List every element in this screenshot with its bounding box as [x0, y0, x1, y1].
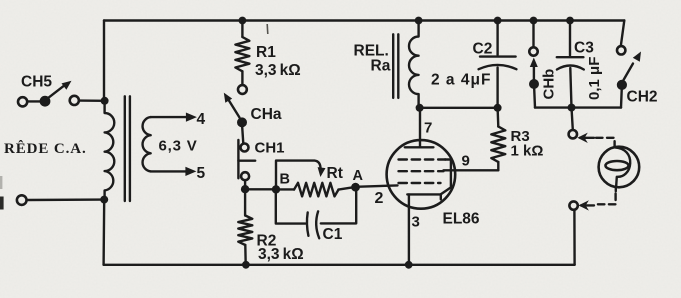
wire CH1 to node [244, 180, 246, 185]
switch CH2 pole contact [617, 80, 627, 90]
wire top rail B+ [104, 19, 624, 21]
relay REL core [393, 34, 398, 98]
capacitor C3 bottom lead [570, 68, 571, 108]
svg-text:Rt: Rt [327, 165, 343, 182]
svg-text:B: B [280, 172, 290, 188]
junction top of C3 [566, 17, 574, 25]
lamp lower plug arrow [579, 200, 595, 210]
pushbutton CH1 actuator bar [238, 140, 255, 178]
wire anode to pin 7 [419, 108, 421, 147]
tube EL86 grid g3 (dashed) [399, 158, 446, 160]
dashed lead upper terminal to lamp [596, 138, 615, 147]
switch CHa pole contact [237, 117, 247, 127]
resistor R1 [235, 21, 249, 85]
junction transformer primary top [101, 97, 109, 105]
svg-text:2: 2 [375, 190, 384, 207]
wire anode node rail [420, 107, 498, 109]
wire lower terminal to primary bottom [27, 198, 105, 201]
capacitor C1 right lead [321, 187, 356, 223]
transformer T1 core [125, 96, 130, 201]
node B [272, 185, 280, 193]
capacitor C2 bottom lead [496, 68, 498, 108]
wire CHa to CH1 [242, 127, 243, 143]
switch CHa blade arrow [224, 93, 240, 118]
svg-text:A: A [353, 168, 364, 184]
junction top of R1 [239, 17, 247, 25]
wire secondary tap 5 [151, 167, 197, 176]
pushbutton CH1 bottom contact [241, 172, 249, 180]
svg-text:3,3 kΩ: 3,3 kΩ [255, 62, 301, 79]
junction R2 bottom rail [242, 261, 250, 269]
capacitor C3 top lead [569, 21, 571, 56]
capacitor C2 top lead [496, 21, 498, 56]
svg-text:C1: C1 [323, 226, 343, 243]
switch CH5 right terminal [70, 96, 79, 105]
svg-text:6,3 V: 6,3 V [159, 138, 198, 155]
lamp lower terminal [569, 201, 577, 209]
svg-text:7: 7 [424, 120, 432, 137]
lamp L1 envelope [599, 147, 640, 188]
wire secondary tap 4 [151, 113, 197, 122]
relay REL Ra coil [409, 21, 419, 108]
switch CH2 blade arrow [624, 52, 642, 81]
wire A to tube grid pin 2 [356, 185, 398, 186]
svg-text:3,3 kΩ: 3,3 kΩ [258, 246, 304, 263]
resistor R2 [238, 189, 252, 264]
tube EL86 cathode [407, 194, 441, 199]
capacitor C2 plates [479, 57, 517, 70]
svg-text:5: 5 [197, 165, 206, 182]
wire CHb to sub-rail [534, 84, 535, 108]
scan smudge left edge [0, 24, 268, 210]
dashed lead lamp to lower terminal [596, 188, 616, 205]
svg-text:1 kΩ: 1 kΩ [511, 142, 544, 159]
wire sub-rail to lamp upper terminal [572, 108, 573, 130]
junction transformer primary bottom [100, 196, 108, 204]
wire CH2 to sub-rail [620, 85, 623, 108]
pushbutton CH1 top contact [241, 144, 249, 152]
transformer T1 secondary winding [143, 117, 151, 171]
svg-text:4: 4 [197, 111, 206, 128]
wire bottom rail (ground return) [104, 264, 575, 266]
svg-text:EL86: EL86 [443, 211, 480, 228]
tube EL86 grid g1 (dashed) [399, 182, 441, 184]
lamp upper plug arrow [577, 133, 594, 143]
switch CH2 upper contact [617, 21, 625, 55]
potentiometer Rt body [276, 183, 351, 197]
wire left vertical to bottom rail [102, 200, 105, 265]
svg-text:C3: C3 [574, 40, 594, 57]
wire lower terminal to bottom rail [573, 210, 576, 265]
tube EL86 envelope [387, 140, 456, 209]
junction tube cathode bottom rail [405, 261, 413, 269]
junction top of C2 [494, 17, 502, 25]
tube EL86 anode plate [405, 146, 434, 148]
lamp upper terminal [569, 130, 577, 138]
junction REL bottom / anode node [416, 104, 424, 112]
wire node to B [245, 188, 276, 190]
svg-text:R1: R1 [256, 44, 276, 61]
switch CHa fixed contact [238, 85, 247, 94]
wire R3 to screen grid pin 9 [444, 169, 499, 171]
capacitor C3 plates [557, 57, 584, 69]
node A [351, 183, 360, 192]
svg-text:3: 3 [412, 214, 420, 231]
resistor R3 [491, 108, 505, 171]
svg-text:CHa: CHa [251, 106, 282, 123]
svg-text:Ra: Ra [371, 58, 391, 75]
wire CH5 left terminal to pole [27, 100, 40, 102]
svg-text:RÊDE C.A.: RÊDE C.A. [4, 140, 87, 157]
transformer T1 primary winding [105, 101, 115, 200]
terminal RÊDE lower [17, 195, 27, 205]
wire left vertical (rail to transformer primary top) [103, 21, 105, 102]
svg-text:0,1 μF: 0,1 μF [586, 57, 603, 100]
svg-text:CH1: CH1 [255, 140, 285, 157]
switch CH5 left terminal [18, 97, 27, 106]
switch CHb blade arrow [530, 58, 538, 80]
svg-text:9: 9 [462, 153, 470, 170]
svg-text:CHb: CHb [541, 69, 558, 100]
junction top of CHb [530, 17, 538, 25]
junction CH1/R2 node [241, 185, 249, 193]
capacitor C1 plates [307, 211, 319, 238]
potentiometer Rt wiper (tied to B) [276, 161, 326, 190]
junction top of REL [415, 17, 423, 25]
tube EL86 g3-cathode strap [441, 160, 451, 195]
junction C3 bottom sub-rail [568, 104, 576, 112]
capacitor C1 left lead [276, 189, 306, 223]
svg-text:CH2: CH2 [627, 89, 658, 106]
svg-text:CH5: CH5 [21, 74, 52, 91]
switch CHb pole contact [529, 79, 539, 89]
svg-text:C2: C2 [473, 41, 493, 58]
tube EL86 grid g2 (dashed) [399, 170, 444, 172]
wire cathode to pin 3 [408, 194, 410, 264]
switch CHb upper contact [529, 21, 537, 56]
switch CH5 pole contact [40, 96, 51, 107]
wire lamp sub-rail [535, 106, 621, 108]
junction C2 bottom / R3 top [494, 104, 502, 112]
wire CH5 to transformer node [79, 99, 105, 102]
svg-text:2 a 4μF: 2 a 4μF [431, 72, 491, 89]
lamp L1 filament [606, 147, 631, 187]
switch CH5 blade arrow [49, 81, 72, 98]
